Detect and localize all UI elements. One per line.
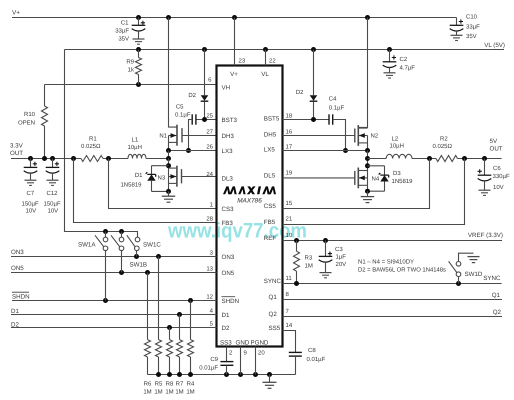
svg-text:DL3: DL3 bbox=[222, 175, 234, 182]
svg-text:D2: D2 bbox=[222, 325, 230, 332]
diode D1 bbox=[146, 172, 156, 181]
junction feed/SW1A bbox=[103, 229, 108, 234]
label C12 voltage bbox=[48, 208, 59, 215]
label C4 bbox=[329, 96, 337, 103]
svg-text:10µH: 10µH bbox=[128, 144, 142, 151]
label R1 bbox=[89, 136, 97, 143]
wire VL rail bbox=[65, 49, 505, 51]
label C1 bbox=[121, 19, 129, 26]
junction D1/R7 bbox=[177, 312, 182, 317]
svg-text:SW1A: SW1A bbox=[78, 241, 96, 248]
svg-text:Q1: Q1 bbox=[492, 292, 501, 299]
label C5 bbox=[176, 103, 184, 110]
pin 9 GND number bbox=[244, 350, 248, 357]
svg-text:R2: R2 bbox=[440, 136, 448, 143]
pin 7 Q2 bbox=[269, 308, 290, 318]
label C2 bbox=[400, 56, 408, 63]
svg-text:N1 – N4 = SI9410DY: N1 – N4 = SI9410DY bbox=[358, 259, 414, 266]
capacitor C8 bbox=[289, 352, 302, 374]
junction rail/R7 bbox=[177, 372, 182, 377]
label N2 bbox=[371, 132, 379, 139]
junction ON5/SW1B bbox=[119, 270, 124, 275]
label D1 value bbox=[120, 182, 142, 189]
label R3 value bbox=[305, 263, 313, 270]
pin 24 DL3 bbox=[206, 171, 233, 183]
svg-text:25: 25 bbox=[206, 112, 213, 119]
svg-text:1M: 1M bbox=[165, 389, 173, 396]
ground at SW1D bbox=[468, 257, 480, 263]
svg-text:OUT: OUT bbox=[490, 146, 503, 153]
svg-text:SHDN: SHDN bbox=[12, 293, 30, 300]
label C4 value bbox=[329, 105, 345, 112]
label R10 bbox=[24, 111, 36, 118]
net label ON5 bbox=[11, 265, 24, 272]
svg-text:10µH: 10µH bbox=[390, 143, 404, 150]
junction VL/C2 bbox=[387, 47, 392, 52]
svg-text:SYNC: SYNC bbox=[483, 275, 501, 282]
wire VL to D2b bbox=[313, 50, 315, 96]
svg-text:R7: R7 bbox=[176, 381, 184, 388]
net label SHDN bbox=[12, 292, 30, 300]
wire C4 to LX5 bbox=[333, 120, 346, 151]
svg-text:D1: D1 bbox=[222, 312, 230, 319]
label R5 value bbox=[154, 389, 162, 396]
label SW1B bbox=[130, 262, 148, 269]
resistor R7 bbox=[177, 315, 183, 375]
svg-text:SW1D: SW1D bbox=[465, 271, 483, 278]
wire 3.3V rail left bbox=[11, 158, 81, 160]
junction SHDN/R4 bbox=[188, 298, 193, 303]
svg-text:D1: D1 bbox=[11, 308, 19, 315]
svg-text:C4: C4 bbox=[329, 96, 337, 103]
svg-text:C7: C7 bbox=[27, 190, 35, 197]
switch SW1C bbox=[127, 235, 140, 256]
svg-text:4.7µF: 4.7µF bbox=[400, 65, 416, 72]
svg-text:R1: R1 bbox=[89, 136, 97, 143]
junction 3.3V/C7 bbox=[28, 156, 33, 161]
pin 19 DL5 bbox=[264, 169, 293, 179]
svg-text:1M: 1M bbox=[305, 263, 313, 270]
svg-text:0.025Ω: 0.025Ω bbox=[433, 143, 453, 150]
label R9 bbox=[126, 59, 134, 66]
wire D3 branch bottom bbox=[368, 182, 385, 192]
pin 14 SS5 bbox=[269, 322, 293, 332]
svg-text:33µF: 33µF bbox=[466, 23, 480, 30]
wire L1 to LX3 node bbox=[146, 158, 169, 160]
svg-text:L2: L2 bbox=[392, 136, 399, 143]
svg-text:DL5: DL5 bbox=[264, 173, 276, 180]
junction 3.3V/FB3 bbox=[71, 156, 76, 161]
wire D1 branch bottom bbox=[152, 181, 169, 192]
svg-text:20V: 20V bbox=[336, 261, 347, 268]
svg-text:15: 15 bbox=[286, 200, 293, 207]
label C10 value bbox=[466, 23, 480, 30]
label C7 bbox=[27, 190, 35, 197]
svg-text:SHDN: SHDN bbox=[222, 298, 240, 305]
svg-text:ON5: ON5 bbox=[222, 270, 235, 277]
svg-text:VL: VL bbox=[261, 71, 269, 78]
net label Q1 right bbox=[492, 292, 501, 299]
svg-text:35V: 35V bbox=[118, 36, 129, 43]
junction VL/D2a bbox=[202, 47, 207, 52]
label D3 value bbox=[392, 178, 414, 185]
pin 18 BST5 bbox=[264, 112, 293, 122]
svg-text:CS3: CS3 bbox=[222, 206, 235, 213]
pin name SS3 bbox=[220, 339, 232, 346]
svg-text:LX3: LX3 bbox=[222, 148, 234, 155]
svg-text:OPEN: OPEN bbox=[18, 120, 35, 127]
wire VL to D2a bbox=[204, 50, 206, 96]
junction rail/R5 bbox=[156, 372, 161, 377]
pin name V+ bbox=[230, 71, 238, 78]
pin 15 CS5 bbox=[264, 200, 293, 210]
net label 5V OUT bbox=[490, 138, 503, 153]
label R6 value bbox=[143, 389, 151, 396]
label R3 bbox=[305, 255, 313, 262]
svg-text:MAX786: MAX786 bbox=[237, 198, 262, 205]
label L2 value bbox=[390, 143, 404, 150]
svg-text:REF: REF bbox=[264, 235, 277, 242]
svg-text:SYNC: SYNC bbox=[264, 278, 282, 285]
svg-text:16: 16 bbox=[286, 128, 293, 135]
junction LX3/D1 top bbox=[166, 163, 171, 168]
label D3 bbox=[393, 170, 401, 177]
diode D2 (left half) bbox=[201, 95, 209, 101]
label C12 bbox=[47, 190, 59, 197]
svg-text:33µF: 33µF bbox=[115, 28, 129, 35]
pin 4 D1 bbox=[210, 307, 230, 319]
wire D1 branch top bbox=[152, 166, 169, 175]
svg-text:10V: 10V bbox=[26, 208, 37, 215]
junction VH/R9 bbox=[136, 82, 141, 87]
junction rail/GND bbox=[238, 372, 243, 377]
pin 13 ON5 bbox=[206, 265, 234, 277]
pin 3 ON3 bbox=[210, 249, 235, 260]
label R2 bbox=[440, 136, 448, 143]
junction LX3 node bbox=[166, 148, 171, 153]
U1 part number MAX786 bbox=[237, 198, 262, 205]
wire FB5 sense bbox=[283, 159, 465, 225]
watermark bbox=[167, 220, 307, 243]
junction SYNC/R3 bbox=[294, 281, 299, 286]
svg-text:Q2: Q2 bbox=[493, 309, 502, 316]
junction ON5/R6 bbox=[145, 270, 150, 275]
pin 25 BST3 bbox=[206, 112, 237, 124]
svg-text:1M: 1M bbox=[175, 389, 183, 396]
label C7 voltage bbox=[26, 208, 37, 215]
note transistors bbox=[358, 259, 414, 266]
wire PGND stub bbox=[255, 347, 257, 375]
junction VL/R9 bbox=[136, 47, 141, 52]
svg-text:OUT: OUT bbox=[10, 150, 23, 157]
svg-text:SW1B: SW1B bbox=[130, 262, 148, 269]
svg-text:D1: D1 bbox=[135, 172, 143, 179]
junction N3 source bbox=[166, 189, 171, 194]
label R4 bbox=[187, 381, 195, 388]
label R7 bbox=[176, 381, 184, 388]
switch SW1A bbox=[95, 232, 108, 301]
junction 5V/C6 bbox=[482, 156, 487, 161]
svg-text:5V: 5V bbox=[490, 138, 498, 145]
svg-text:0.1µF: 0.1µF bbox=[329, 105, 345, 112]
wire LX3 to N3 drain bbox=[168, 159, 170, 192]
svg-text:R3: R3 bbox=[305, 255, 313, 262]
pin 22 VL stub bbox=[265, 50, 267, 66]
svg-text:14: 14 bbox=[286, 322, 293, 329]
pin 16 DH5 bbox=[264, 128, 293, 138]
label D2 left bbox=[188, 92, 196, 99]
net label D1 input bbox=[11, 308, 19, 315]
switch SW1B bbox=[111, 232, 124, 273]
net label VL (5V) bbox=[484, 42, 505, 49]
pin 10 REF bbox=[264, 232, 293, 242]
capacitor C4 bbox=[329, 114, 333, 124]
pin 17 LX5 bbox=[264, 143, 293, 153]
svg-text:17: 17 bbox=[286, 143, 293, 150]
capacitor C2 bbox=[383, 50, 397, 79]
transistor N1 bbox=[169, 125, 217, 146]
pin 26 LX3 bbox=[206, 143, 233, 155]
svg-text:DH3: DH3 bbox=[222, 133, 235, 140]
junction LX5/D3 top bbox=[365, 163, 370, 168]
junction feed/SW1B bbox=[119, 229, 124, 234]
wire D1 input bbox=[11, 314, 217, 316]
svg-text:27: 27 bbox=[206, 128, 213, 135]
label R6 bbox=[144, 381, 152, 388]
capacitor C5 bbox=[192, 114, 196, 124]
resistor R6 bbox=[145, 273, 151, 375]
wire BST3 pin lead bbox=[196, 119, 217, 121]
wire LX5 down bbox=[367, 151, 369, 192]
label C10 voltage bbox=[466, 33, 477, 40]
capacitor C3 bbox=[319, 241, 333, 278]
pin name VL bbox=[261, 71, 269, 78]
svg-text:V+: V+ bbox=[12, 10, 20, 17]
svg-text:R8: R8 bbox=[166, 381, 174, 388]
capacitor C9 bbox=[220, 362, 233, 375]
ground below N3 bbox=[162, 191, 176, 202]
svg-text:PGND: PGND bbox=[251, 339, 269, 346]
capacitor C10 bbox=[450, 18, 464, 41]
wire CS3 sense bbox=[109, 159, 217, 209]
capacitor C7 bbox=[24, 159, 38, 186]
svg-text:N4: N4 bbox=[372, 175, 380, 182]
svg-text:FB3: FB3 bbox=[222, 220, 234, 227]
svg-text:D2 = BAW56L OR TWO 1N4148s: D2 = BAW56L OR TWO 1N4148s bbox=[358, 267, 446, 274]
junction VL/D2b bbox=[311, 47, 316, 52]
svg-text:C3: C3 bbox=[335, 246, 343, 253]
label D2 right bbox=[296, 89, 304, 96]
svg-text:10V: 10V bbox=[493, 184, 504, 191]
wire SYNC line bbox=[283, 283, 502, 285]
svg-text:10V: 10V bbox=[48, 208, 59, 215]
svg-text:SS5: SS5 bbox=[269, 325, 281, 332]
junction D2/R8 bbox=[167, 325, 172, 330]
pin 28 FB3 bbox=[206, 215, 233, 227]
label C2 value bbox=[400, 65, 416, 72]
svg-text:DH5: DH5 bbox=[264, 132, 277, 139]
label C6 value bbox=[493, 173, 510, 180]
svg-text:BST3: BST3 bbox=[222, 117, 238, 124]
svg-text:C1: C1 bbox=[121, 19, 129, 26]
svg-text:N1: N1 bbox=[159, 133, 167, 140]
label SW1C bbox=[143, 241, 161, 248]
junction REF/R3 bbox=[294, 238, 299, 243]
pin 23 V+ stub bbox=[234, 18, 236, 66]
junction LX5 node bbox=[365, 148, 370, 153]
svg-text:28: 28 bbox=[206, 215, 213, 222]
wire D2b to BST5 bbox=[313, 102, 315, 120]
resistor R4 bbox=[188, 301, 194, 375]
junction N4 source bbox=[365, 189, 370, 194]
IC U1 MAX786 body bbox=[217, 66, 283, 347]
junction LX5/L2 bbox=[365, 156, 370, 161]
junction rail/ground bbox=[267, 372, 272, 377]
wire LX5 pin lead bbox=[283, 150, 368, 152]
junction 3.3V/CS3 bbox=[106, 156, 111, 161]
label C8 value bbox=[307, 356, 326, 363]
svg-text:CS5: CS5 bbox=[264, 203, 277, 210]
label D1 bbox=[135, 172, 143, 179]
label C6 bbox=[493, 165, 501, 172]
junction rail/PGND bbox=[253, 372, 258, 377]
pin 23 number bbox=[239, 58, 246, 65]
junction VL/pin22 bbox=[263, 47, 268, 52]
wire Q2 line bbox=[283, 316, 503, 318]
svg-text:ON3: ON3 bbox=[11, 249, 24, 256]
capacitor C12 bbox=[46, 159, 60, 186]
wire SS5 lead bbox=[283, 331, 296, 353]
label C9 bbox=[210, 356, 218, 363]
wire 5V rail seg1 bbox=[368, 158, 387, 160]
capacitor C6 bbox=[478, 159, 492, 196]
junction 3.3V/R10 bbox=[42, 156, 47, 161]
svg-text:C10: C10 bbox=[466, 14, 478, 21]
svg-text:35V: 35V bbox=[466, 33, 477, 40]
svg-text:FB5: FB5 bbox=[264, 219, 276, 226]
wire N1 source to LX3 bbox=[168, 136, 170, 151]
pin 27 DH3 bbox=[206, 128, 234, 140]
wire VL to switches bbox=[65, 50, 138, 238]
label L1 bbox=[132, 137, 139, 144]
net label ON3 bbox=[11, 249, 24, 256]
label SW1D bbox=[465, 271, 483, 278]
label R10 value bbox=[18, 120, 35, 127]
wire ON3 bbox=[11, 256, 217, 258]
capacitor C1 bbox=[132, 18, 146, 45]
svg-text:L1: L1 bbox=[132, 137, 139, 144]
svg-text:150µF: 150µF bbox=[22, 201, 39, 208]
label C1 value bbox=[115, 28, 129, 35]
label R8 bbox=[166, 381, 174, 388]
wire R2 to out bbox=[458, 158, 502, 160]
svg-text:1N5819: 1N5819 bbox=[120, 182, 142, 189]
pin 6 VH bbox=[208, 77, 230, 92]
svg-text:13: 13 bbox=[206, 265, 213, 272]
junction 5V/FB5 bbox=[462, 156, 467, 161]
resistor R10 bbox=[42, 85, 48, 159]
wire SHDN bbox=[12, 300, 217, 302]
svg-text:0.01µF: 0.01µF bbox=[307, 356, 326, 363]
label N3 bbox=[158, 174, 166, 181]
wire V+ rail bbox=[12, 17, 457, 19]
svg-text:R5: R5 bbox=[155, 381, 163, 388]
svg-text:0.025Ω: 0.025Ω bbox=[81, 143, 101, 150]
svg-text:C8: C8 bbox=[308, 347, 316, 354]
svg-text:0.01µF: 0.01µF bbox=[199, 365, 218, 372]
junction BST5/D2b bbox=[311, 117, 316, 122]
label R8 value bbox=[165, 389, 173, 396]
wire VH rail bbox=[45, 84, 217, 86]
junction BST3/D2a bbox=[202, 117, 207, 122]
label C5 value bbox=[175, 112, 191, 119]
svg-text:D2: D2 bbox=[188, 92, 196, 99]
junction V+/N2 drain bbox=[365, 15, 370, 20]
svg-text:R4: R4 bbox=[187, 381, 195, 388]
svg-text:C5: C5 bbox=[176, 103, 184, 110]
wire D2 input bbox=[11, 327, 217, 329]
wire bottom rail bbox=[148, 374, 296, 376]
label R2 value bbox=[433, 143, 453, 150]
svg-text:ON3: ON3 bbox=[222, 254, 235, 261]
pin 2 SS3 number bbox=[229, 350, 233, 357]
svg-text:C6: C6 bbox=[493, 165, 501, 172]
label R1 value bbox=[81, 143, 101, 150]
label R5 bbox=[155, 381, 163, 388]
svg-text:18: 18 bbox=[286, 112, 293, 119]
diode D3 bbox=[379, 173, 389, 182]
svg-text:R10: R10 bbox=[24, 111, 36, 118]
svg-text:SS3: SS3 bbox=[220, 339, 232, 346]
inductor L1 bbox=[128, 154, 146, 158]
svg-text:N3: N3 bbox=[158, 174, 166, 181]
pin 1 CS3 bbox=[210, 201, 234, 213]
wire N2 drain from V+ bbox=[358, 18, 367, 128]
label C10 bbox=[466, 14, 478, 21]
junction 3.3V/C12 bbox=[50, 156, 55, 161]
svg-text:19: 19 bbox=[286, 169, 293, 176]
label L2 bbox=[392, 136, 399, 143]
svg-text:V+: V+ bbox=[230, 71, 238, 78]
resistor R5 bbox=[156, 257, 162, 375]
svg-text:C9: C9 bbox=[210, 356, 218, 363]
wire C5 to LX3 bbox=[189, 120, 193, 151]
pin name GND bbox=[236, 339, 250, 346]
pin 12 SHDN bbox=[206, 293, 239, 305]
svg-text:Q1: Q1 bbox=[269, 294, 278, 301]
junction LX3/L1 bbox=[166, 156, 171, 161]
label C3 bbox=[335, 246, 343, 253]
junction 5V/CS5 bbox=[427, 156, 432, 161]
junction SYNC/SW1D bbox=[456, 281, 461, 286]
net label Q2 right bbox=[493, 309, 502, 316]
pin 5 D2 bbox=[210, 320, 230, 332]
svg-text:VH: VH bbox=[222, 85, 231, 92]
wire 3.3V rail mid bbox=[103, 158, 128, 160]
resistor R1 bbox=[81, 156, 103, 162]
resistor R3 bbox=[294, 241, 300, 284]
U1 MAXIM logo bbox=[223, 186, 276, 194]
label C3 voltage bbox=[336, 261, 347, 268]
label C1 voltage bbox=[118, 36, 129, 43]
svg-text:LX5: LX5 bbox=[264, 147, 276, 154]
label L1 value bbox=[128, 144, 142, 151]
label C8 bbox=[308, 347, 316, 354]
wire BST5 pin lead bbox=[283, 119, 330, 121]
junction ON3/SW1C bbox=[134, 254, 139, 259]
transistor N4 bbox=[283, 168, 368, 189]
note diode bbox=[358, 267, 446, 274]
